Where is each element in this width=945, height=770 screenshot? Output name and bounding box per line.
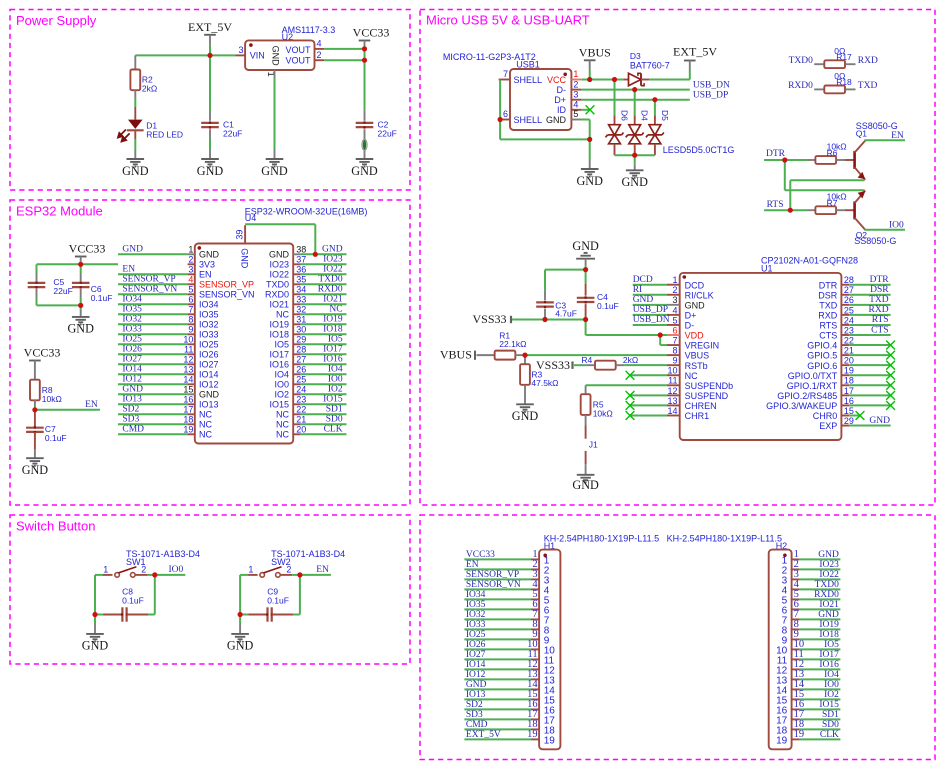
svg-text:34: 34 <box>296 285 306 295</box>
wire H1 pin 1 net VCC33 <box>464 558 531 560</box>
H2 pin 17 (SD1) <box>792 718 800 720</box>
wire U1 pin 27 net DSR <box>849 294 891 296</box>
U1 pin 14 (CHR1) <box>667 414 680 416</box>
svg-text:IO34: IO34 <box>466 590 486 600</box>
svg-text:11: 11 <box>668 376 677 386</box>
U1 pin 10 (NC) <box>667 374 680 376</box>
svg-text:IO15: IO15 <box>819 700 839 710</box>
svg-text:IO0: IO0 <box>169 565 184 575</box>
svg-text:GND: GND <box>818 610 839 620</box>
svg-text:TXD0: TXD0 <box>318 275 343 285</box>
U4 pin 10 (IO25) <box>188 343 195 345</box>
H1 pin 7 (IO32) <box>531 618 539 620</box>
TVS diode D6 bottom pin <box>614 144 616 155</box>
svg-text:4: 4 <box>188 275 193 285</box>
power flag VCC33 <box>359 40 371 42</box>
U4 pin 29 (IO5) <box>293 343 300 345</box>
svg-text:IO22: IO22 <box>819 570 839 580</box>
svg-text:1: 1 <box>188 245 193 255</box>
svg-text:RTS: RTS <box>767 200 784 210</box>
transistor Q1 SS8050-G <box>853 151 856 169</box>
svg-text:GND: GND <box>122 245 143 255</box>
wire pin39 down to GND net <box>314 224 316 254</box>
U1 pin 14 no-connect <box>630 414 667 416</box>
svg-text:SENSOR_VP: SENSOR_VP <box>466 570 519 580</box>
svg-text:GND: GND <box>576 174 603 188</box>
svg-text:IO23: IO23 <box>269 260 289 270</box>
svg-text:NC: NC <box>276 410 289 420</box>
wire H2 pin 2 net IO23 <box>800 568 841 570</box>
svg-text:RXD0: RXD0 <box>265 290 289 300</box>
resistor R18 left stub <box>814 88 824 90</box>
wire H1 pin 7 net IO32 <box>464 618 531 620</box>
wire U4 pin 35 net TXD0 <box>300 283 346 285</box>
ground GND (SW) <box>86 634 104 642</box>
svg-text:25: 25 <box>844 305 854 315</box>
wire Q1 emitter to RTS <box>790 179 864 181</box>
ground GND (J1) <box>577 475 595 483</box>
svg-text:3: 3 <box>188 265 193 275</box>
svg-text:25: 25 <box>296 375 306 385</box>
wire U4 pin 19 net CMD <box>118 433 188 435</box>
svg-text:VBUS: VBUS <box>440 348 472 362</box>
USB1 pin 6 SHELL <box>499 119 510 121</box>
capacitor C8 left pin <box>103 614 122 616</box>
wire main 5V rail <box>135 54 235 56</box>
H2 pin 19 (CLK) <box>792 738 800 740</box>
wire H2 pin 8 net IO19 <box>800 628 841 630</box>
wire U1 pin 5 net USB_DN <box>633 324 667 326</box>
U1 pin 25 (RXD) <box>841 314 849 316</box>
svg-text:EXT_5V: EXT_5V <box>466 730 501 740</box>
capacitor C9 0.1uF <box>268 607 272 621</box>
svg-text:SENSOR_VP: SENSOR_VP <box>122 275 175 285</box>
svg-text:RI: RI <box>633 285 643 295</box>
TVS diode D6 symbol <box>609 125 621 136</box>
svg-text:14: 14 <box>183 375 193 385</box>
U1 pin 27 (DSR) <box>841 294 849 296</box>
svg-text:GND: GND <box>572 239 599 253</box>
svg-text:18: 18 <box>183 415 193 425</box>
wire H2 pin 4 net TXD0 <box>800 588 841 590</box>
section frame: ESP32 Module <box>10 200 410 505</box>
svg-text:IO22: IO22 <box>269 270 289 280</box>
svg-text:KH-2.54PH180-1X19P-L11.5: KH-2.54PH180-1X19P-L11.5 <box>667 534 782 544</box>
svg-text:26: 26 <box>296 365 306 375</box>
U4 pin 32 (NC) <box>293 313 300 315</box>
svg-text:USB_DP: USB_DP <box>633 305 668 315</box>
wire H2 pin 10 net IO5 <box>800 648 841 650</box>
wire U4 pin 11 net IO26 <box>118 353 188 355</box>
wire U1 pin 28 net DTR <box>849 284 891 286</box>
svg-text:SD0: SD0 <box>326 415 343 425</box>
svg-text:IO25: IO25 <box>466 630 486 640</box>
svg-text:EN: EN <box>199 270 212 280</box>
U1 pin 17 no-connect <box>849 394 891 396</box>
wire U4 pin 1 net GND <box>118 253 188 255</box>
wire USB_DP <box>581 99 690 101</box>
svg-text:IO35: IO35 <box>466 600 486 610</box>
svg-text:GND: GND <box>67 322 94 336</box>
svg-text:VIN: VIN <box>250 51 265 61</box>
wire H2 pin 6 net IO21 <box>800 608 841 610</box>
svg-text:IO18: IO18 <box>323 325 343 335</box>
svg-text:5: 5 <box>188 285 193 295</box>
svg-text:GND: GND <box>199 250 220 260</box>
svg-text:IO4: IO4 <box>824 670 839 680</box>
svg-text:2: 2 <box>286 565 291 575</box>
svg-text:0.1uF: 0.1uF <box>597 301 619 311</box>
svg-text:IO13: IO13 <box>122 395 142 405</box>
resistor R1 left pin <box>477 354 495 356</box>
U1 pin 29 (EXP) <box>841 425 849 427</box>
svg-text:1: 1 <box>103 565 108 575</box>
svg-text:IO17: IO17 <box>323 345 343 355</box>
U4 pin 36 (IO22) <box>293 273 300 275</box>
svg-text:IO2: IO2 <box>274 390 289 400</box>
svg-text:IO13: IO13 <box>466 690 486 700</box>
resistor R1 22.1k body <box>495 351 516 360</box>
svg-text:VCC33: VCC33 <box>24 346 61 360</box>
U4 pin 4 (SENSOR_VP) <box>188 283 195 285</box>
svg-text:IO5: IO5 <box>274 340 289 350</box>
svg-text:DSR: DSR <box>818 290 838 300</box>
resistor R6 right stub <box>836 159 845 161</box>
svg-text:VBUS: VBUS <box>685 351 710 361</box>
svg-text:USB_DP: USB_DP <box>693 91 728 101</box>
svg-text:33: 33 <box>296 295 306 305</box>
jumper J1 pin 2 <box>585 451 587 464</box>
wire U1 pin 26 net TXD <box>849 304 891 306</box>
svg-text:IO4: IO4 <box>274 370 289 380</box>
svg-text:IO23: IO23 <box>323 255 343 265</box>
svg-text:19: 19 <box>183 425 193 435</box>
svg-text:2: 2 <box>141 565 146 575</box>
svg-text:21: 21 <box>296 415 306 425</box>
svg-text:KH-2.54PH180-1X19P-L11.5: KH-2.54PH180-1X19P-L11.5 <box>544 534 659 544</box>
wire H1 pin 11 net IO27 <box>464 658 531 660</box>
H1 pin 19 (EXT_5V) <box>531 738 539 740</box>
H1 pin 9 (IO25) <box>531 638 539 640</box>
power flag VCC33 (R8) <box>29 360 41 362</box>
svg-text:GND: GND <box>818 550 839 560</box>
resistor R6 left stub <box>807 159 815 161</box>
capacitor C6 0.1uF <box>72 283 90 287</box>
switch lever <box>264 567 282 573</box>
svg-text:IO35: IO35 <box>199 310 219 320</box>
ground GND (C1) <box>201 159 219 167</box>
svg-text:IO32: IO32 <box>122 315 142 325</box>
svg-text:U2: U2 <box>282 32 294 42</box>
U4 pin 8 (IO32) <box>188 323 195 325</box>
switch contacts <box>115 573 120 578</box>
U1 pin 26 (TXD) <box>841 304 849 306</box>
svg-text:IO21: IO21 <box>819 600 839 610</box>
wire U4 pin 24 net IO2 <box>300 393 346 395</box>
svg-text:GND: GND <box>82 639 109 653</box>
H2 pin 11 (IO17) <box>792 658 800 660</box>
svg-text:SD2: SD2 <box>122 405 139 415</box>
section frame: headers <box>420 515 935 760</box>
svg-text:VBUS: VBUS <box>579 45 611 59</box>
capacitor C3 bottom pin <box>544 309 546 320</box>
U4 pin 34 (RXD0) <box>293 293 300 295</box>
svg-text:12: 12 <box>183 355 193 365</box>
svg-text:VCC33: VCC33 <box>69 242 106 256</box>
wire to ground <box>94 615 96 624</box>
svg-text:GND: GND <box>633 295 654 305</box>
R8 bottom stub <box>34 400 36 406</box>
svg-text:GND: GND <box>512 409 539 423</box>
U4 pin 12 (IO27) <box>188 363 195 365</box>
U1 pin 18 (GPIO.1/RXT) <box>841 384 849 386</box>
svg-text:GND: GND <box>122 385 143 395</box>
wire to cap <box>95 614 103 616</box>
U4 pin 2 (3V3) <box>188 263 195 265</box>
svg-text:SHELL: SHELL <box>514 75 543 85</box>
U1 pin 15 no-connect <box>849 414 860 416</box>
svg-text:19: 19 <box>844 366 854 376</box>
wire C4 top pin <box>585 270 587 284</box>
H1 pin 12 (IO14) <box>531 668 539 670</box>
svg-text:IO12: IO12 <box>122 375 142 385</box>
U4 pin 33 (IO21) <box>293 303 300 305</box>
svg-text:20: 20 <box>296 425 306 435</box>
svg-text:D-: D- <box>557 85 567 95</box>
svg-text:IO14: IO14 <box>466 660 486 670</box>
svg-text:IO0: IO0 <box>328 375 343 385</box>
U1 pin 10 no-connect <box>630 374 667 376</box>
svg-text:GND: GND <box>199 390 220 400</box>
U4 pin 22 (NC) <box>293 413 300 415</box>
resistor R2 top stub <box>134 55 136 69</box>
wire U4 pin 29 net IO5 <box>300 343 346 345</box>
svg-text:IO15: IO15 <box>269 400 289 410</box>
svg-text:R6: R6 <box>827 148 838 158</box>
resistor R1 right pin <box>515 354 525 356</box>
ground GND (C7) <box>26 458 44 466</box>
svg-text:2kΩ: 2kΩ <box>623 355 638 365</box>
resistor R7 left stub <box>807 209 815 211</box>
svg-text:28: 28 <box>296 345 306 355</box>
svg-text:SENSOR_VP: SENSOR_VP <box>199 280 254 290</box>
svg-text:R17: R17 <box>836 52 852 62</box>
R2 bottom stub <box>134 90 136 97</box>
svg-text:CTS: CTS <box>871 325 888 335</box>
svg-text:IO0: IO0 <box>274 380 289 390</box>
ground GND (USB1) <box>581 169 599 177</box>
wire U1 pin 4 net USB_DP <box>633 314 667 316</box>
svg-text:22: 22 <box>844 335 854 345</box>
svg-text:3V3: 3V3 <box>199 260 215 270</box>
svg-text:VSS33: VSS33 <box>536 358 570 372</box>
U4 pin 35 (TXD0) <box>293 283 300 285</box>
U4 pin 38 (GND) <box>293 253 300 255</box>
svg-text:16: 16 <box>844 396 854 406</box>
svg-text:0.1uF: 0.1uF <box>267 596 289 606</box>
U1 pin 13 (CHREN) <box>667 404 680 406</box>
svg-text:RED LED: RED LED <box>146 130 183 140</box>
wire R1 to U1 VBUS pin 8 <box>525 354 667 356</box>
capacitor C4 bottom pin <box>585 304 587 319</box>
svg-text:DSR: DSR <box>870 285 889 295</box>
svg-text:TXD0: TXD0 <box>815 580 840 590</box>
wire H1 pin 4 net SENSOR_VN <box>464 588 531 590</box>
R8 top stub <box>34 361 36 380</box>
wire pin39 across <box>245 223 315 225</box>
H1 pin 3 (SENSOR_VP) <box>531 578 539 580</box>
wire U4 pin 3 net EN <box>118 273 188 275</box>
section frame: Micro USB 5V & USB-UART <box>420 10 935 506</box>
svg-text:CMD: CMD <box>466 720 488 730</box>
svg-text:GND: GND <box>621 175 648 189</box>
U1 pin 19 no-connect <box>849 374 891 376</box>
wire D4 column <box>634 90 636 116</box>
LED D1 emission arrows <box>118 130 130 142</box>
svg-text:IO5: IO5 <box>328 335 343 345</box>
svg-text:5: 5 <box>672 315 677 325</box>
svg-text:SD2: SD2 <box>466 700 483 710</box>
capacitor C4 0.1uF <box>577 298 595 302</box>
svg-text:SD1: SD1 <box>822 710 839 720</box>
wire to GND symbol <box>589 139 591 160</box>
wire H2 pin 1 net GND <box>800 558 841 560</box>
H2 pin 13 (IO4) <box>792 678 800 680</box>
svg-text:IO18: IO18 <box>819 630 839 640</box>
U1 pin 8 (VBUS) <box>667 354 680 356</box>
capacitor C6 pins <box>80 273 82 281</box>
power flag VBUS (R1) <box>474 351 476 360</box>
svg-text:8: 8 <box>672 346 677 356</box>
U4 pin 14 (IO12) <box>188 383 195 385</box>
svg-text:IO15: IO15 <box>323 395 343 405</box>
wire EN net <box>300 574 331 576</box>
U4 pin 26 (IO4) <box>293 373 300 375</box>
svg-text:2: 2 <box>573 79 578 89</box>
svg-text:10: 10 <box>183 335 193 345</box>
H2 pin 12 (IO16) <box>792 668 800 670</box>
U4 pin 15 (GND) <box>188 393 195 395</box>
svg-text:CP2102N-A01-GQFN28: CP2102N-A01-GQFN28 <box>761 256 858 266</box>
wire VDD to pin6 <box>660 334 667 336</box>
svg-text:RSTb: RSTb <box>685 361 708 371</box>
resistor R4 right stub <box>616 364 625 366</box>
svg-text:GND: GND <box>240 248 250 269</box>
wire U1 pin 24 net RTS <box>849 324 891 326</box>
TVS diode D4 top pin <box>634 115 636 124</box>
svg-text:GND: GND <box>269 250 290 260</box>
svg-text:Power Supply: Power Supply <box>16 13 97 28</box>
wire H1 pin 9 net IO25 <box>464 638 531 640</box>
svg-text:6: 6 <box>188 295 193 305</box>
H1 pin 11 (IO27) <box>531 658 539 660</box>
resistor R5 bottom stub <box>585 415 587 426</box>
switch lever <box>119 567 137 573</box>
svg-text:NC: NC <box>685 371 698 381</box>
svg-text:D+: D+ <box>554 95 566 105</box>
U1 pin 9 (RSTb) <box>667 364 680 366</box>
wire U4 pin 28 net IO17 <box>300 353 346 355</box>
svg-text:CHREN: CHREN <box>685 401 717 411</box>
wire D3 to EXT_5V <box>649 79 690 81</box>
svg-text:NC: NC <box>199 430 212 440</box>
H1 pin 5 (IO34) <box>531 598 539 600</box>
TVS diode D5 bottom pin <box>654 144 656 155</box>
svg-text:16: 16 <box>183 395 193 405</box>
switch pin 1 wire <box>240 574 248 576</box>
wire U4 pin 21 net SD0 <box>300 423 346 425</box>
svg-text:2: 2 <box>672 285 677 295</box>
power flag VCC33 (ESP32) <box>75 256 87 258</box>
svg-text:RXD0: RXD0 <box>788 81 813 91</box>
svg-text:24: 24 <box>296 385 306 395</box>
USB1 pin 1 VCC (highlighted) <box>571 79 582 81</box>
resistor R3 bottom pin <box>524 385 526 404</box>
U1 pin 4 (D+) <box>667 314 680 316</box>
wire H1 pin 19 net EXT_5V <box>464 738 531 740</box>
svg-text:39: 39 <box>235 230 245 240</box>
wire U4 pin 10 net IO25 <box>118 343 188 345</box>
svg-text:VCC33: VCC33 <box>353 26 390 40</box>
svg-text:SUSPENDb: SUSPENDb <box>685 381 734 391</box>
svg-text:GND: GND <box>197 164 224 178</box>
capacitor C3 top pin <box>544 290 546 300</box>
wire H1 pin 10 net IO26 <box>464 648 531 650</box>
wire U4 pin 37 net IO23 <box>300 263 346 265</box>
svg-text:IO26: IO26 <box>199 350 219 360</box>
svg-text:27: 27 <box>296 355 306 365</box>
USB1 pin 3 D+ <box>571 99 581 101</box>
USB1 pin 7 SHELL <box>499 79 510 81</box>
svg-text:D6: D6 <box>620 110 630 121</box>
svg-text:7: 7 <box>188 305 193 315</box>
ESP32 module U4 body <box>195 244 293 444</box>
U1 pin 5 (D-) <box>667 324 680 326</box>
wire RTS to R7 <box>764 209 807 211</box>
svg-text:GND: GND <box>261 164 288 178</box>
H1 pin 15 (IO13) <box>531 698 539 700</box>
svg-text:IO5: IO5 <box>824 640 839 650</box>
svg-text:IO19: IO19 <box>269 320 289 330</box>
svg-text:CHR0: CHR0 <box>813 411 838 421</box>
U2 pin 3 stub <box>235 54 245 56</box>
svg-text:VCC: VCC <box>547 75 567 85</box>
svg-text:38: 38 <box>296 245 306 255</box>
U1 pin 22 (GPIO.4) <box>841 344 849 346</box>
H2 pin 4 (TXD0) <box>792 588 800 590</box>
svg-text:IO32: IO32 <box>466 610 486 620</box>
wire U1 pin 2 net RI <box>633 294 667 296</box>
H2 pin 16 (IO15) <box>792 708 800 710</box>
U1 pin 28 (DTR) <box>841 284 849 286</box>
svg-text:7: 7 <box>503 69 508 79</box>
svg-text:32: 32 <box>296 305 306 315</box>
U1 pin 16 (GPIO.3/WAKEUP) <box>841 404 849 406</box>
svg-text:SHELL: SHELL <box>514 115 543 125</box>
wire EN net <box>35 409 100 411</box>
wire U4 pin 27 net IO16 <box>300 363 346 365</box>
U1 pin 6 (VDD) <box>667 334 680 336</box>
svg-text:BAT760-7: BAT760-7 <box>630 60 670 70</box>
ground GND (D1) <box>127 159 145 167</box>
U1 pin 2 (RI/CLK) <box>667 294 680 296</box>
svg-text:9: 9 <box>672 356 677 366</box>
svg-text:GPIO.0/TXT: GPIO.0/TXT <box>788 371 838 381</box>
svg-text:EN: EN <box>122 265 135 275</box>
wire H1 pin 6 net IO35 <box>464 608 531 610</box>
svg-text:12: 12 <box>667 386 677 396</box>
svg-text:30: 30 <box>296 325 306 335</box>
